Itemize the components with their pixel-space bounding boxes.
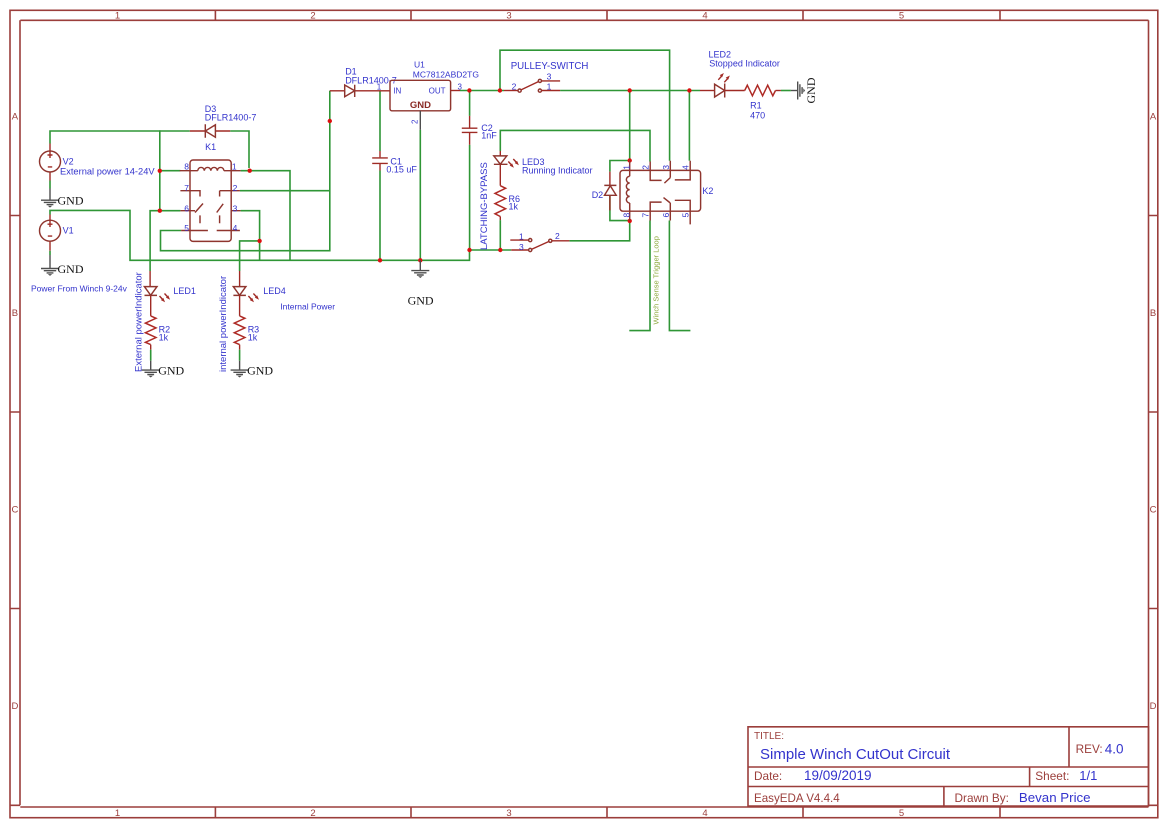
svg-text:4.0: 4.0 [1105,742,1124,757]
svg-text:1: 1 [377,82,382,91]
svg-text:2: 2 [512,81,517,91]
svg-text:5: 5 [184,223,189,233]
junction dots [158,88,692,262]
svg-text:B: B [12,308,18,319]
svg-text:K1: K1 [205,142,216,152]
svg-text:Stopped Indicator: Stopped Indicator [709,58,780,68]
capacitor C1 [372,151,417,175]
ground below U1 [408,260,434,307]
LED LED4 [233,271,335,316]
svg-text:3: 3 [506,808,511,819]
wire K2 pin1 drop [629,91,631,161]
switch SW2 latching [510,231,569,252]
svg-text:1: 1 [547,81,552,91]
svg-text:8: 8 [184,161,189,171]
svg-text:2: 2 [233,183,238,193]
svg-text:GND: GND [408,294,434,308]
wire C2 branch [469,91,471,251]
svg-text:Simple Winch CutOut Circuit: Simple Winch CutOut Circuit [760,746,951,763]
svg-text:GND: GND [58,194,84,208]
svg-text:External power 14-24V: External power 14-24V [60,167,155,177]
wire U1 pin2 to rail [419,130,421,260]
svg-text:EasyEDA V4.4.4: EasyEDA V4.4.4 [754,792,840,805]
svg-text:1k: 1k [509,202,519,212]
svg-text:Date:: Date: [754,769,782,783]
svg-text:Power From Winch 9-24v: Power From Winch 9-24v [31,284,128,294]
wire pulley top loop to K2 pin3 [500,50,670,161]
wire R6 bottom to rail [499,220,501,250]
svg-text:1k: 1k [159,333,169,343]
svg-text:V1: V1 [63,226,74,236]
svg-text:U1: U1 [414,60,425,70]
svg-text:2: 2 [410,119,419,124]
svg-text:R1: R1 [750,101,762,111]
svg-text:5: 5 [899,808,904,819]
svg-text:0.15 uF: 0.15 uF [386,165,417,175]
svg-text:3: 3 [506,11,511,22]
svg-text:2: 2 [310,808,315,819]
wire winch sense loop pin7 [629,221,650,331]
svg-text:2: 2 [555,231,560,241]
svg-text:Bevan Price: Bevan Price [1019,790,1091,805]
svg-text:D2: D2 [592,190,604,200]
svg-text:DFLR1400-7: DFLR1400-7 [345,76,397,86]
svg-text:Internal Power: Internal Power [280,302,335,312]
wire LED2 feed [781,90,791,92]
svg-text:5: 5 [899,11,904,22]
svg-text:GND: GND [247,364,273,378]
svg-text:1: 1 [232,161,237,171]
resistor R2 [145,316,170,350]
svg-text:6: 6 [184,203,189,213]
wire K1 pin3 to LED4 branch and rail [240,211,260,271]
svg-text:4: 4 [680,165,690,170]
svg-text:Winch Sense Trigger Loop: Winch Sense Trigger Loop [651,236,660,324]
diode D3 [190,104,257,138]
wire V1 to bottom rail [50,210,470,260]
svg-text:GND: GND [410,100,431,111]
svg-text:GND: GND [804,77,818,103]
svg-text:REV:: REV: [1076,742,1103,756]
svg-text:8: 8 [622,213,632,218]
resistor R1 [745,85,781,120]
relay K2 [620,161,713,225]
diode D2 [592,172,617,211]
svg-text:1: 1 [622,165,632,170]
voltage source V1 [40,215,74,251]
svg-text:External powerIndicator: External powerIndicator [134,272,145,372]
svg-text:C: C [11,505,18,516]
voltage source V2 [40,144,156,181]
svg-text:MC7812ABD2TG: MC7812ABD2TG [413,69,479,79]
svg-text:internal powerIndicator: internal powerIndicator [218,276,229,372]
svg-text:3: 3 [519,242,524,252]
svg-text:4: 4 [702,808,707,819]
svg-text:GND: GND [58,262,84,276]
svg-text:LED1: LED1 [173,286,196,296]
TITLEBLOCK [748,727,1149,806]
svg-text:K2: K2 [702,186,713,196]
svg-text:LATCHING-BYPASS: LATCHING-BYPASS [479,162,490,250]
svg-text:Running Indicator: Running Indicator [522,166,593,176]
resistor R3 [234,316,259,350]
svg-text:B: B [1150,308,1156,319]
svg-text:OUT: OUT [429,87,446,96]
wire winch sense loop pin6 [669,221,690,331]
ground under R3 [231,350,274,378]
wire top rail to K1 pin8 [159,130,161,210]
regulator U1 [377,60,479,130]
svg-text:D: D [1150,701,1157,712]
ground right of R1 [791,77,818,103]
label internal powerIndicator [218,276,229,372]
svg-text:IN: IN [393,87,401,96]
wire K2 pin4 drop [688,91,690,161]
svg-text:4: 4 [233,223,238,233]
wire D2 bypass loop [610,161,630,221]
LED LED3 [494,151,593,186]
svg-text:GND: GND [158,364,184,378]
wire D3 cathode to K1 pin1 corner [230,131,249,168]
svg-text:V2: V2 [63,157,74,167]
svg-text:DFLR1400-7: DFLR1400-7 [205,113,257,123]
svg-text:6: 6 [661,213,671,218]
svg-text:TITLE:: TITLE: [754,731,784,742]
svg-text:LED4: LED4 [263,286,286,296]
wire C1 branch [379,91,381,261]
wire K1 pin1 to vertical A [241,171,290,261]
label LATCHING-BYPASS [479,162,490,250]
svg-text:Drawn By:: Drawn By: [955,791,1009,805]
wire K1 pin8 stub link [160,170,181,172]
net label Winch Sense Trigger Loop [651,236,660,324]
wire V2 top to D3 anode [50,131,190,144]
wire LED3 top loop to K2 pin2 [500,130,650,161]
wire K1 pin5 loop to D1 input [161,91,330,251]
svg-text:1: 1 [115,11,120,22]
svg-text:3: 3 [661,165,671,170]
LED LED1 [144,271,196,316]
svg-text:7: 7 [184,183,189,193]
svg-text:1k: 1k [248,333,258,343]
svg-text:Sheet:: Sheet: [1035,769,1069,783]
svg-text:19/09/2019: 19/09/2019 [804,768,872,783]
svg-text:1/1: 1/1 [1079,768,1097,783]
svg-text:1: 1 [519,232,524,242]
svg-text:1nF: 1nF [481,131,497,141]
net label Power From Winch [31,284,128,294]
svg-text:7: 7 [641,213,651,218]
svg-text:470: 470 [750,111,765,121]
wire SW2 pin2 to K2 pin8 [569,221,629,241]
svg-text:A: A [1150,112,1157,123]
label External powerIndicator [134,272,145,372]
wire K1 pin2 to D1 column [240,190,330,192]
resistor R6 [495,186,520,220]
svg-text:3: 3 [458,82,463,91]
svg-text:2: 2 [310,11,315,22]
diode D1 [330,66,397,97]
svg-text:D: D [11,701,18,712]
capacitor C2 [462,116,498,145]
relay K1 [180,142,241,241]
svg-text:3: 3 [233,203,238,213]
svg-text:A: A [12,112,19,123]
wire bypass rail to SW2 pin3 [470,249,512,251]
LED LED2 [700,49,780,97]
svg-text:2: 2 [641,165,651,170]
wire K1 pin6 to LED1 branch [150,211,180,271]
ground under V1 [41,251,84,276]
switch PULLEY-SWITCH [504,61,588,92]
svg-text:3: 3 [547,71,552,81]
svg-text:C: C [1150,505,1157,516]
wire U1 out bus [460,90,700,92]
svg-text:5: 5 [680,213,690,218]
svg-text:1: 1 [115,808,120,819]
svg-text:4: 4 [702,11,707,22]
ground under R2 [142,350,185,378]
ground under V2 [41,181,84,208]
